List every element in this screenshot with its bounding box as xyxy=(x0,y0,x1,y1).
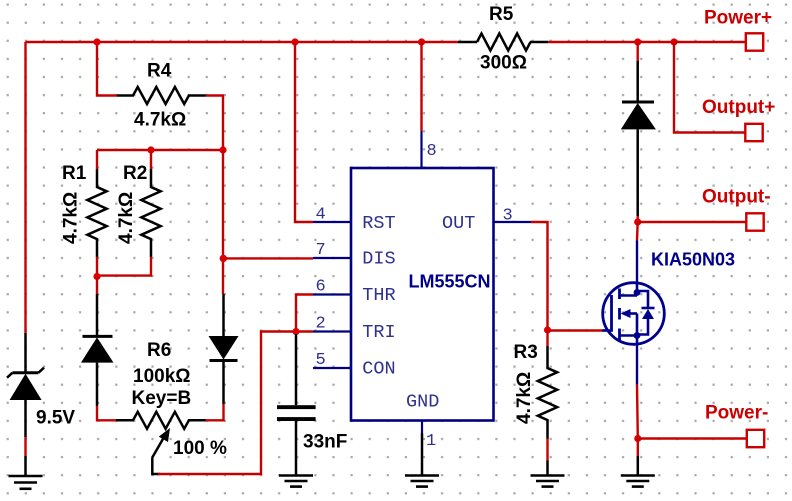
resistor R1 xyxy=(87,169,106,257)
svg-text:R4: R4 xyxy=(147,61,172,82)
svg-text:R1: R1 xyxy=(62,163,87,184)
ground (R3) xyxy=(531,476,565,487)
wire R2 top xyxy=(150,150,152,169)
diode D3 xyxy=(621,61,656,216)
ground (zener) xyxy=(9,476,43,489)
junction at 97,276.5 xyxy=(93,273,100,280)
zener diode D4 9.5V xyxy=(7,333,44,437)
wire R2 bottom to node xyxy=(97,257,151,276)
resistor R2 xyxy=(141,169,160,257)
svg-text:LM555CN: LM555CN xyxy=(409,272,491,292)
pin stub TRI xyxy=(313,330,351,332)
svg-text:GND: GND xyxy=(406,392,439,413)
junction at 637.8,438.5 xyxy=(634,435,641,442)
wire cap C1 top lead xyxy=(295,334,298,405)
junction at 637.7,222 xyxy=(634,218,641,225)
svg-text:TRI: TRI xyxy=(362,322,395,343)
wire D1 to R6 left xyxy=(97,406,116,420)
svg-text:R5: R5 xyxy=(489,4,514,25)
svg-text:4.7kΩ: 4.7kΩ xyxy=(134,110,186,131)
wire D3 to node xyxy=(637,216,639,222)
junction at 296,331.5 xyxy=(292,328,299,335)
svg-text:DIS: DIS xyxy=(362,249,395,270)
junction at 295,42 xyxy=(291,38,298,45)
wire MOSFET source xyxy=(636,344,638,385)
svg-text:KIA50N03: KIA50N03 xyxy=(651,250,735,270)
junction at 223,150 xyxy=(219,146,226,153)
wire source node to ground xyxy=(637,439,639,476)
junction at 674,42 xyxy=(670,38,677,45)
svg-text:1: 1 xyxy=(426,432,436,451)
connector Power+ xyxy=(674,33,763,50)
potentiometer R6 xyxy=(116,412,206,474)
junction at 151,150 xyxy=(147,146,154,153)
wire R3 bottom xyxy=(546,439,548,461)
svg-text:4.7kΩ: 4.7kΩ xyxy=(61,192,82,244)
svg-text:4.7kΩ: 4.7kΩ xyxy=(514,372,535,424)
wire gate xyxy=(548,329,603,331)
resistor R5 xyxy=(458,34,548,51)
wire TRI (pin2) xyxy=(158,332,313,475)
junction at 637.7,42 xyxy=(634,38,641,45)
wire OUT (pin3) xyxy=(531,222,548,330)
pin stub RST xyxy=(313,221,351,223)
svg-text:9.5V: 9.5V xyxy=(36,408,75,429)
wire R3 top xyxy=(546,330,548,346)
svg-text:R6: R6 xyxy=(147,340,171,361)
diode D2 xyxy=(209,294,239,404)
wire R1 bottom xyxy=(96,257,98,277)
connector Output+ xyxy=(674,42,763,141)
wire D3 top xyxy=(637,42,639,61)
svg-text:6: 6 xyxy=(316,278,326,297)
wire DIS (pin7) xyxy=(223,257,313,259)
svg-text:100 %: 100 % xyxy=(173,438,227,459)
wire mid row y150 xyxy=(97,149,223,151)
ground (capacitor) xyxy=(279,476,313,487)
wire top rail xyxy=(26,41,675,43)
wire R4 branch xyxy=(97,42,223,150)
junction at 421.5,42 xyxy=(418,38,425,45)
svg-text:4: 4 xyxy=(316,206,326,225)
svg-text:RST: RST xyxy=(362,213,395,234)
diode D1 xyxy=(81,294,114,406)
wire node to D1 xyxy=(96,277,98,295)
pin stub 8 (VCC) xyxy=(420,131,422,169)
svg-text:5: 5 xyxy=(316,351,326,370)
wire pin8 to top rail xyxy=(420,42,422,131)
svg-text:Output+: Output+ xyxy=(702,97,775,118)
wire D2 top xyxy=(222,150,224,294)
svg-text:33nF: 33nF xyxy=(303,432,347,453)
wire RST (pin4) xyxy=(295,42,313,222)
svg-text:8: 8 xyxy=(427,142,437,161)
wire left rail vertical xyxy=(24,42,26,456)
wire THR (pin6) xyxy=(296,295,313,332)
pin stub DIS xyxy=(313,257,351,259)
svg-text:3: 3 xyxy=(503,207,513,226)
wire R1 top xyxy=(96,150,98,169)
transistor Q1 KIA50N03 xyxy=(602,283,664,345)
svg-text:Key=B: Key=B xyxy=(132,388,192,409)
resistor R4 xyxy=(117,87,206,104)
svg-text:Power+: Power+ xyxy=(704,8,772,29)
junction at 97,42 xyxy=(93,38,100,45)
svg-text:100kΩ: 100kΩ xyxy=(133,366,191,387)
junction at 223,257.5 (DIS tap) xyxy=(220,255,227,262)
connector Output- xyxy=(638,213,764,230)
capacitor C1 33nF xyxy=(277,405,316,475)
pin stub CON xyxy=(313,367,351,369)
pin stub 1 (GND) xyxy=(421,421,423,434)
svg-text:R2: R2 xyxy=(123,163,147,184)
pin stub THR xyxy=(313,293,351,295)
wire zener to ground xyxy=(24,456,27,476)
svg-text:CON: CON xyxy=(362,359,395,380)
wire MOSFET drain xyxy=(636,222,639,241)
svg-text:Power-: Power- xyxy=(705,403,768,424)
resistor R3 xyxy=(538,346,557,439)
connector Power- xyxy=(638,430,764,447)
junction at 547.5,330 xyxy=(544,326,551,333)
svg-text:OUT: OUT xyxy=(442,213,475,234)
ground (pin1) xyxy=(405,476,439,487)
svg-text:R3: R3 xyxy=(514,342,538,363)
pin stub OUT xyxy=(494,221,532,223)
svg-text:2: 2 xyxy=(316,315,326,334)
op-amp/timer U1 LM555CN box xyxy=(351,168,494,421)
wire R6 right to D2 xyxy=(206,404,224,420)
svg-text:THR: THR xyxy=(362,285,395,306)
ground (MOSFET source) xyxy=(621,476,655,487)
wire pin1 to ground xyxy=(421,433,424,476)
svg-text:300Ω: 300Ω xyxy=(480,53,527,74)
svg-text:4.7kΩ: 4.7kΩ xyxy=(116,192,137,244)
svg-text:7: 7 xyxy=(316,241,326,260)
svg-text:Output-: Output- xyxy=(702,187,771,208)
